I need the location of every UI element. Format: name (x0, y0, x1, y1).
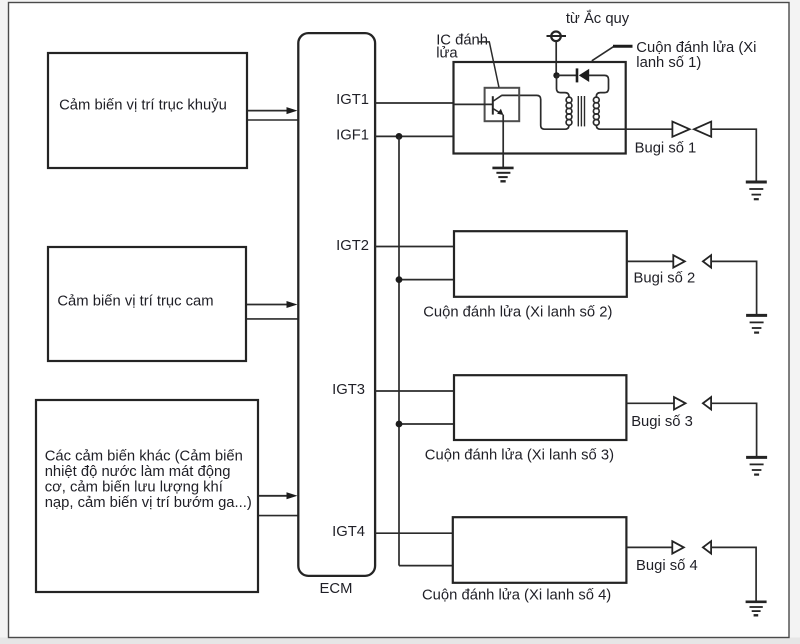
junction dot IGF2 (396, 276, 403, 283)
spark plug gap Bugi 3 (674, 397, 711, 409)
svg-text:Bugi số 1: Bugi số 1 (635, 141, 697, 157)
junction dot IGF3 (396, 421, 403, 428)
ECM box (298, 33, 375, 576)
ignition coil box 1 (454, 62, 626, 154)
ignition coil box 3 (454, 375, 626, 440)
wire IGF branch 3 (399, 423, 455, 425)
ground (bugi 3) (746, 457, 767, 474)
wire battery node to diode (557, 74, 577, 76)
ground (bugi 4) (746, 602, 767, 616)
wire primary bottom to collector (501, 95, 569, 129)
wire from battery down (555, 41, 557, 75)
ground (igniter) (492, 168, 513, 181)
wire: cam sensor second line (247, 318, 298, 320)
spark plug gap Bugi 4 (672, 541, 711, 553)
svg-text:nhiệt độ nước làm mát động: nhiệt độ nước làm mát động (45, 464, 231, 480)
arrow: other sensors to ECM (259, 492, 298, 499)
svg-text:Bugi số 4: Bugi số 4 (636, 558, 698, 574)
spark plug gap Bugi 1 (672, 122, 711, 137)
wire IGT1 (375, 102, 455, 104)
leader line IC label (478, 42, 500, 88)
sensor box: crankshaft position (48, 53, 247, 168)
label: Cuộn đánh lửa (Xi lanh số 1) (636, 40, 756, 71)
wire IGT3 (375, 390, 455, 392)
svg-text:IGT3: IGT3 (332, 382, 365, 398)
wire coil1 to spark gap (626, 128, 673, 130)
wire: other sensors second line (259, 515, 298, 517)
transistor Q1 base wire (454, 103, 493, 105)
ignition coil box 2 (454, 231, 627, 297)
svg-text:IGT4: IGT4 (332, 524, 365, 540)
svg-text:Bugi số 2: Bugi số 2 (634, 271, 696, 287)
wire spark1 to ground (711, 129, 756, 181)
wire secondary bottom out (596, 125, 625, 129)
svg-text:nạp, cảm biến vị trí bướm ga..: nạp, cảm biến vị trí bướm ga...) (45, 495, 252, 511)
transistor Q1 (493, 96, 504, 115)
label: IC đánh lửa (436, 32, 488, 61)
sensor box: camshaft position (48, 247, 246, 361)
svg-text:IGT1: IGT1 (336, 92, 369, 108)
wire coil3 to spark gap (626, 402, 674, 404)
svg-text:Cảm biến vị trí trục khuỷu: Cảm biến vị trí trục khuỷu (59, 98, 227, 114)
junction dot battery node (553, 72, 559, 78)
svg-text:lanh số 1): lanh số 1) (636, 55, 701, 71)
svg-text:Cuộn đánh lửa (Xi: Cuộn đánh lửa (Xi (636, 40, 756, 56)
ground (bugi 1) (746, 182, 767, 199)
wire IGF branch 2 (399, 279, 455, 281)
svg-text:IGF1: IGF1 (336, 127, 369, 143)
IC igniter box (485, 88, 520, 121)
wire coil4 to spark gap (626, 546, 672, 548)
wire coil2 to spark gap (627, 260, 674, 262)
leader line coil1 label (592, 46, 633, 61)
svg-text:IGT2: IGT2 (336, 238, 369, 254)
svg-text:Các cảm biến khác (Cảm biến: Các cảm biến khác (Cảm biến (45, 449, 243, 465)
svg-text:Cuộn đánh lửa (Xi lanh số 4): Cuộn đánh lửa (Xi lanh số 4) (422, 587, 611, 603)
wire spark4 to ground (711, 547, 756, 600)
transformer T1 core (578, 96, 584, 126)
wire IGT2 (375, 246, 455, 248)
wire battery node to primary top (557, 75, 570, 97)
wire IGF1 (375, 135, 455, 137)
bottom gray strip (0, 638, 800, 644)
spark plug gap Bugi 2 (673, 255, 711, 267)
svg-text:Bugi số 3: Bugi số 3 (631, 414, 693, 430)
svg-text:Cuộn đánh lửa (Xi lanh số 3): Cuộn đánh lửa (Xi lanh số 3) (425, 447, 614, 463)
svg-text:Cảm biến vị trí trục cam: Cảm biến vị trí trục cam (57, 294, 213, 310)
svg-text:từ Ắc quy: từ Ắc quy (566, 9, 630, 27)
svg-text:cơ, cảm biến lưu lượng khí: cơ, cảm biến lưu lượng khí (45, 480, 224, 496)
ignition coil box 4 (453, 517, 627, 583)
transformer T1 secondary winding (593, 97, 599, 125)
wire IGF bus vertical (398, 136, 400, 565)
arrow: cam sensor to ECM (247, 301, 298, 308)
diode D1 (cathode bar + triangle) (577, 68, 589, 82)
ground (bugi 2) (746, 315, 767, 332)
svg-text:Cuộn đánh lửa (Xi lanh số 2): Cuộn đánh lửa (Xi lanh số 2) (423, 305, 612, 321)
wire IGT4 (375, 532, 453, 534)
wire spark2 to ground (711, 261, 757, 314)
wire IGF branch 4 (399, 565, 453, 567)
battery terminal symbol (547, 32, 567, 42)
svg-text:lửa: lửa (436, 46, 458, 62)
junction dot IGF1 (396, 133, 403, 140)
label: Các cảm biến khác (45, 449, 252, 512)
svg-text:ECM: ECM (320, 581, 353, 597)
sensor box: other sensors (36, 400, 258, 592)
wire emitter to ground (502, 115, 504, 168)
transformer T1 primary winding (566, 97, 572, 125)
arrow: crank sensor to ECM (248, 107, 298, 114)
wire spark3 to ground (711, 403, 757, 456)
wire: crank sensor second line (248, 119, 298, 121)
wire diode to secondary top (589, 75, 609, 97)
